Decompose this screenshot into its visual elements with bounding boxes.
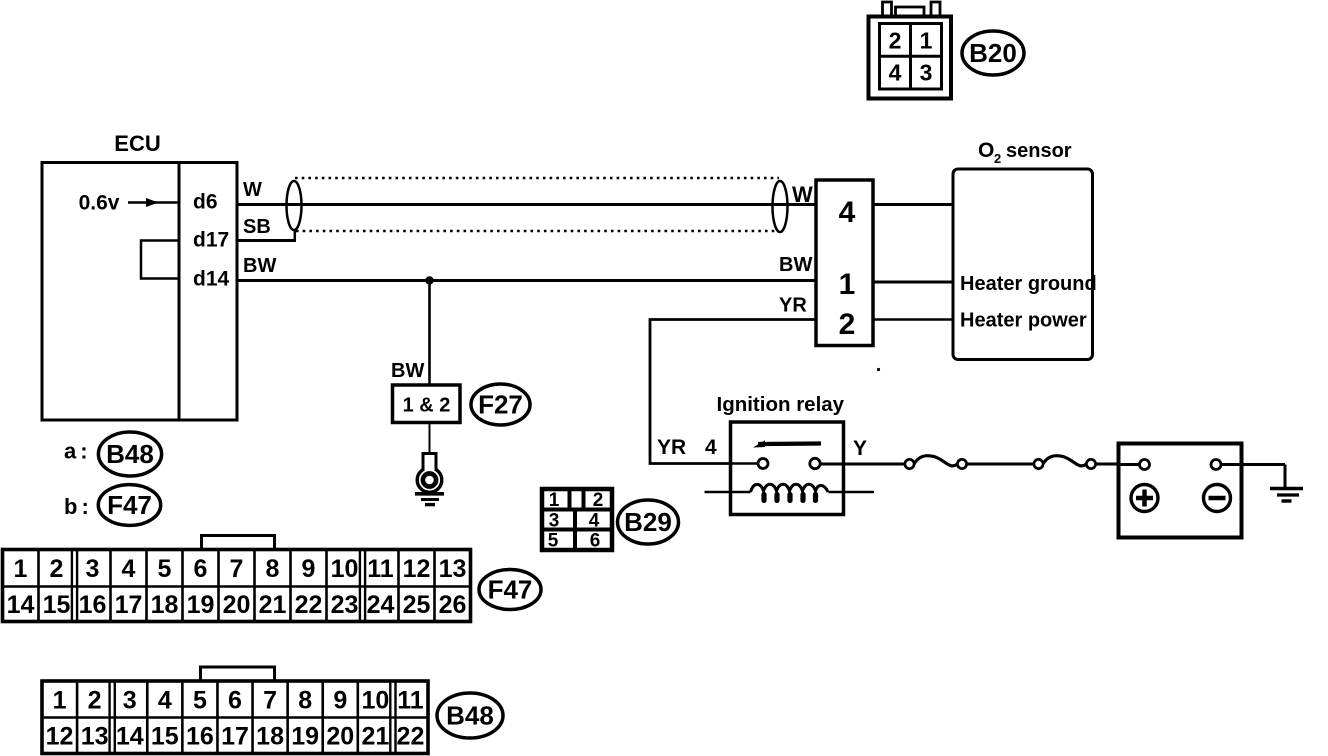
svg-text:8: 8: [266, 555, 280, 583]
svg-text:1: 1: [14, 555, 28, 583]
svg-text:1 & 2: 1 & 2: [403, 395, 451, 417]
svg-text:14: 14: [7, 591, 35, 619]
svg-text:2: 2: [889, 28, 902, 54]
svg-text:d14: d14: [193, 268, 230, 291]
svg-text:10: 10: [361, 686, 389, 714]
svg-text:YR: YR: [779, 295, 807, 317]
svg-text:18: 18: [256, 723, 284, 751]
svg-text:15: 15: [43, 591, 71, 619]
svg-text:4: 4: [889, 60, 902, 86]
svg-text:20: 20: [223, 591, 251, 619]
svg-text:24: 24: [367, 591, 395, 619]
svg-text:19: 19: [187, 591, 215, 619]
svg-text:a:: a:: [64, 439, 92, 464]
svg-text:12: 12: [46, 723, 74, 751]
svg-text:F27: F27: [478, 390, 523, 420]
svg-text:BW: BW: [243, 255, 276, 277]
svg-text:3: 3: [86, 555, 100, 583]
svg-text:0.6v: 0.6v: [79, 192, 120, 215]
svg-text:1: 1: [920, 28, 933, 54]
svg-text:4: 4: [158, 686, 172, 714]
svg-text:1: 1: [53, 686, 67, 714]
svg-text:3: 3: [920, 60, 933, 86]
svg-text:BW: BW: [779, 254, 812, 276]
svg-text:21: 21: [361, 723, 389, 751]
svg-text:2: 2: [839, 308, 856, 341]
svg-text:d17: d17: [193, 229, 229, 252]
svg-text:2: 2: [593, 490, 604, 511]
svg-text:23: 23: [331, 591, 359, 619]
svg-text:B48: B48: [106, 439, 154, 469]
svg-text:3: 3: [549, 511, 560, 532]
svg-text:14: 14: [116, 723, 144, 751]
svg-text:sensor: sensor: [1006, 140, 1072, 162]
svg-text:25: 25: [403, 591, 431, 619]
svg-text:22: 22: [295, 591, 323, 619]
svg-text:13: 13: [439, 555, 467, 583]
svg-text:9: 9: [302, 555, 316, 583]
svg-text:F47: F47: [107, 490, 152, 520]
svg-text:18: 18: [151, 591, 179, 619]
svg-text:6: 6: [590, 531, 601, 552]
svg-text:4: 4: [122, 555, 136, 583]
svg-text:Y: Y: [853, 437, 867, 460]
svg-text:13: 13: [81, 723, 109, 751]
svg-text:15: 15: [151, 723, 179, 751]
svg-text:2: 2: [994, 151, 1001, 166]
svg-text:2: 2: [50, 555, 64, 583]
svg-text:16: 16: [79, 591, 107, 619]
svg-text:b:: b:: [64, 494, 93, 519]
svg-text:3: 3: [123, 686, 137, 714]
svg-text:7: 7: [263, 686, 277, 714]
svg-text:B29: B29: [624, 507, 672, 537]
svg-text:5: 5: [193, 686, 207, 714]
svg-text:ECU: ECU: [114, 131, 160, 156]
svg-text:10: 10: [331, 555, 359, 583]
svg-text:22: 22: [397, 723, 425, 751]
svg-text:6: 6: [228, 686, 242, 714]
svg-text:26: 26: [439, 591, 467, 619]
svg-text:7: 7: [230, 555, 244, 583]
svg-text:B48: B48: [446, 701, 494, 731]
svg-text:Ignition relay: Ignition relay: [717, 393, 845, 416]
svg-text:19: 19: [291, 723, 319, 751]
svg-text:BW: BW: [391, 360, 424, 382]
svg-text:4: 4: [839, 196, 856, 229]
svg-text:YR: YR: [657, 436, 686, 459]
svg-text:Heater ground: Heater ground: [960, 273, 1097, 295]
svg-text:20: 20: [326, 723, 354, 751]
svg-text:17: 17: [115, 591, 143, 619]
svg-text:d6: d6: [193, 191, 218, 214]
svg-text:17: 17: [221, 723, 249, 751]
svg-text:F47: F47: [488, 575, 533, 605]
svg-text:6: 6: [194, 555, 208, 583]
svg-text:8: 8: [298, 686, 312, 714]
svg-text:SB: SB: [243, 216, 271, 238]
svg-text:16: 16: [186, 723, 214, 751]
svg-text:W: W: [243, 179, 262, 201]
svg-text:4: 4: [705, 436, 717, 459]
svg-text:21: 21: [259, 591, 287, 619]
svg-text:Heater power: Heater power: [960, 310, 1087, 332]
svg-text:11: 11: [397, 686, 424, 714]
svg-text:12: 12: [403, 555, 431, 583]
svg-text:O: O: [978, 139, 994, 162]
svg-text:11: 11: [367, 555, 394, 583]
svg-text:1: 1: [549, 490, 560, 511]
svg-text:5: 5: [158, 555, 172, 583]
svg-text:9: 9: [333, 686, 347, 714]
svg-text:2: 2: [88, 686, 102, 714]
svg-text:1: 1: [839, 268, 856, 301]
svg-text:5: 5: [548, 531, 559, 552]
svg-text:B20: B20: [969, 38, 1017, 68]
svg-text:W: W: [792, 182, 813, 207]
svg-text:4: 4: [589, 511, 600, 532]
